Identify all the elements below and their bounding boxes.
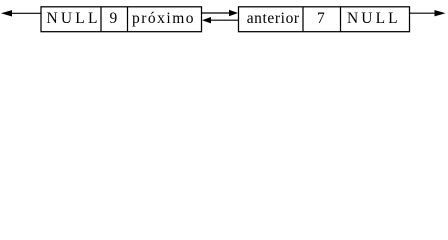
node 2 divider 7|NULL — [340, 7, 342, 32]
bottom middle arrow (points left) — [211, 19, 239, 21]
doubly linked list diagram — [0, 0, 448, 42]
top middle arrow (points right) — [202, 12, 231, 14]
left arrow (points left) — [11, 12, 41, 14]
node 2 divider anterior|7 — [302, 7, 304, 32]
node 1 box — [41, 7, 202, 32]
svg-text:NULL: NULL — [47, 10, 101, 27]
svg-text:NULL: NULL — [347, 10, 401, 27]
node 1 divider 9|proximo — [127, 7, 129, 32]
svg-text:próximo: próximo — [132, 10, 195, 27]
svg-text:9: 9 — [110, 10, 118, 27]
node 1 divider NULL|9 — [100, 7, 102, 32]
svg-text:7: 7 — [317, 10, 325, 27]
node 2 box — [239, 7, 410, 32]
svg-text:anterior: anterior — [247, 10, 300, 27]
right arrow (points right) — [410, 12, 436, 14]
